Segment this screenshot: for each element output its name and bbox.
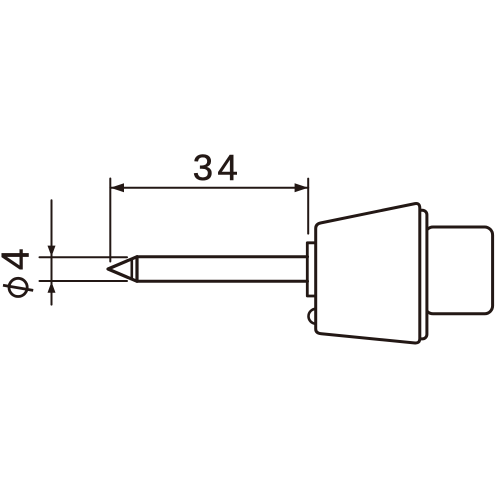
connector barrel [425,227,493,314]
grip body (trapezoid) [316,203,420,343]
tip plating line [131,260,134,278]
flange [307,243,316,296]
arrow left of dim 34 [110,183,124,192]
dim 34 left extension line [109,179,111,262]
arrow down of dia4 [48,246,56,257]
collar ring [410,210,427,339]
dia4 bottom extension line [40,280,128,282]
shaft bottom edge [137,280,308,283]
conical tip [108,257,137,282]
dia4 dimension vertical line [51,200,53,304]
arrow up of dia4 [48,282,56,293]
svg-text:4: 4 [0,248,38,270]
sensor bump [309,309,324,324]
dim 34 line [110,187,308,189]
shaft top edge [137,255,308,258]
arrow right of dim 34 [295,183,309,192]
diameter symbol slash [3,285,33,290]
dia4 top extension line [40,256,128,258]
diameter symbol circle [9,278,27,296]
svg-text:34: 34 [193,147,242,188]
dim 34 right extension line [307,179,309,234]
